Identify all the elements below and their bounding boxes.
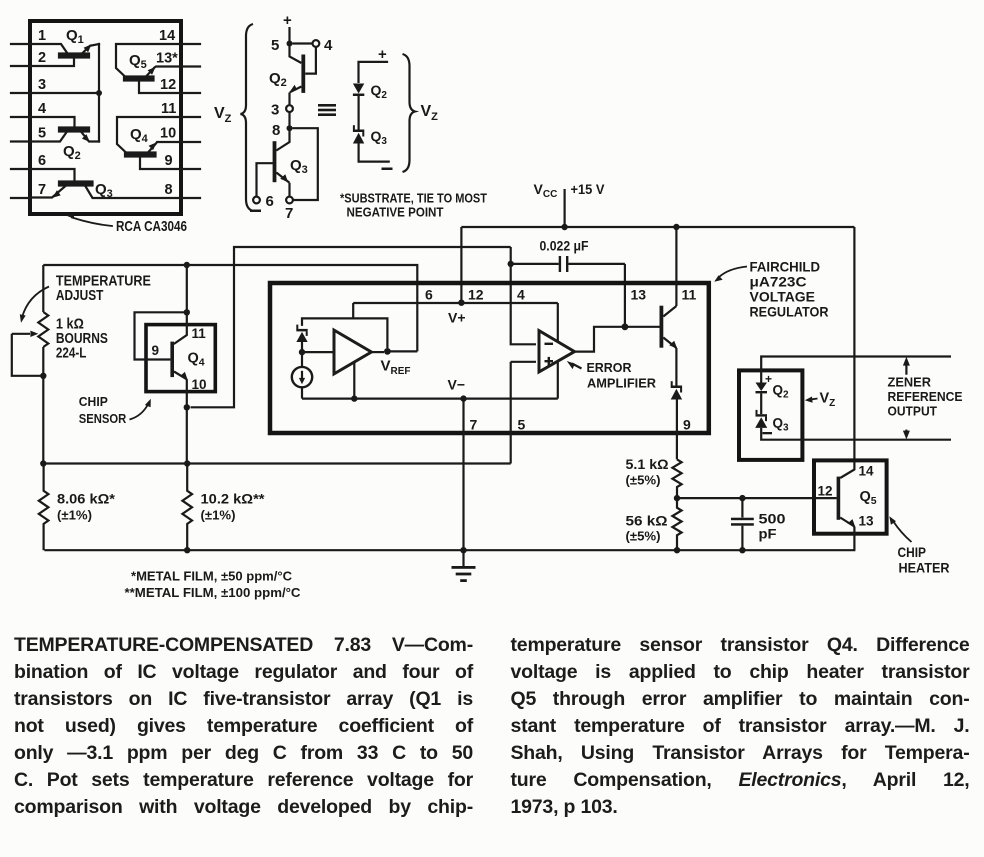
node buffer input junction dot [299, 349, 305, 355]
svg-text:+: + [378, 46, 387, 63]
svg-text:Q2: Q2 [371, 82, 388, 101]
label 1 kOhm BOURNS 224-L [56, 316, 108, 361]
power VCC +15V lead [563, 189, 565, 225]
svg-text:VZ: VZ [820, 391, 836, 410]
label FAIRCHILD uA723C VOLTAGE REGULATOR with arrow [714, 259, 828, 320]
node rail/pin11 junction dot [673, 224, 679, 230]
label 10.2 kOhm (1%) [201, 491, 266, 523]
svg-text:Q4: Q4 [130, 126, 149, 145]
pin labels uA723C bottom [470, 417, 692, 433]
svg-text:Q3: Q3 [773, 416, 790, 434]
caption left column [14, 632, 473, 820]
label Vz with arrow [805, 391, 835, 410]
svg-text:VCC: VCC [534, 181, 558, 200]
wire top of diode stack [359, 62, 389, 83]
svg-text:13: 13 [859, 514, 875, 529]
svg-text:+: + [765, 372, 772, 386]
wire Q4 base loop [135, 312, 187, 359]
diode Q2 (equivalent) [353, 84, 364, 97]
node VREF junction dot [384, 348, 391, 355]
pin labels uA723C top [425, 287, 697, 303]
svg-text:CHIP: CHIP [898, 545, 927, 560]
chip heater box around Q5 [814, 460, 887, 533]
op-amp error amplifier [539, 331, 575, 372]
wire V- internal rail [302, 398, 558, 400]
wire pin 7 to ground [462, 399, 464, 551]
svg-text:7: 7 [285, 205, 293, 222]
diode Q2 (output box) [756, 383, 768, 394]
pin 10 stub [181, 141, 200, 143]
svg-text:Q2: Q2 [269, 70, 287, 89]
svg-text:500: 500 [759, 511, 786, 527]
resistor R3 10.2k [182, 464, 192, 551]
label 500 pF [759, 511, 786, 542]
wire current source to V- rail [301, 387, 303, 398]
svg-text:(±1%): (±1%) [201, 509, 236, 523]
svg-text:6: 6 [38, 153, 46, 169]
zener diode Q3 (equivalent) [353, 125, 364, 143]
svg-text:FAIRCHILD: FAIRCHILD [750, 259, 821, 275]
node ground dots [184, 547, 746, 553]
svg-text:12: 12 [468, 287, 484, 303]
svg-text:0.022 μF: 0.022 μF [540, 239, 589, 254]
svg-text:Q1: Q1 [66, 27, 84, 46]
svg-text:5.1 kΩ: 5.1 kΩ [626, 456, 669, 472]
wire rail down to pin 12 (V+) [460, 227, 462, 303]
svg-text:Q2: Q2 [773, 383, 790, 401]
current source I1 [292, 367, 312, 387]
svg-text:10: 10 [160, 126, 176, 142]
transistor designator labels Q1-Q5 in CA3046 [63, 27, 149, 200]
svg-text:ZENER: ZENER [888, 375, 932, 390]
wire between diodes [358, 96, 360, 130]
pin 4 open terminal [313, 40, 320, 47]
left brace of Vz pair subcircuit [241, 24, 254, 211]
pin labels Q5 box [818, 464, 875, 529]
node V+ / pin12 junction dot [458, 300, 464, 306]
op-amp buffer (voltage reference amplifier) [334, 330, 371, 374]
wire Q5 emitter to ground bus [853, 527, 855, 551]
pin 6 stub [11, 168, 30, 170]
node divider/left dot [40, 460, 46, 466]
node 5.1k/56k junction dot [674, 495, 680, 501]
svg-text:2: 2 [38, 50, 46, 66]
svg-text:56 kΩ: 56 kΩ [626, 513, 668, 529]
svg-text:Q5: Q5 [129, 52, 147, 71]
wire pot bottom to divider line [42, 347, 44, 464]
wire Q4 emitter down to divider [186, 379, 188, 463]
zener reference diode [296, 325, 307, 342]
node pin 5 junction dot [287, 41, 293, 47]
wire Q4 collector column from VREF net [174, 265, 187, 344]
svg-text:6: 6 [425, 287, 433, 303]
node VCC rail tap dot [561, 224, 567, 230]
svg-text:11: 11 [682, 287, 697, 303]
svg-text:SENSOR: SENSOR [79, 411, 127, 426]
svg-text:8: 8 [165, 182, 173, 198]
wire + lead down to pin5 node [288, 27, 290, 41]
wire zener through pin 9 down to 5.1k [676, 400, 678, 460]
pin 7 open terminal [286, 197, 293, 204]
minus terminal mark [382, 168, 393, 171]
svg-text:Q2: Q2 [63, 143, 81, 162]
svg-text:+: + [283, 12, 292, 29]
wire pin3 to pin8 [288, 112, 290, 126]
svg-text:+15 V: +15 V [571, 181, 606, 197]
pin 6 open terminal [253, 197, 260, 204]
svg-text:*METAL FILM, ±50 ppm/°C: *METAL FILM, ±50 ppm/°C [131, 570, 292, 584]
svg-text:(±5%): (±5%) [626, 530, 661, 544]
transistor Q4 chip sensor [170, 342, 187, 380]
svg-text:RCA CA3046: RCA CA3046 [116, 218, 187, 235]
potentiometer R1 1k Bourns 224-L [12, 312, 49, 376]
wire rail right side down to Q5 pin 14 [853, 227, 855, 461]
node pin 8 junction dot [287, 125, 293, 131]
label ERROR AMPLIFIER with arrow [567, 360, 657, 391]
transistor Q2 (Vz subcircuit) [289, 46, 305, 105]
wire reference top rail [302, 318, 387, 348]
svg-text:V−: V− [448, 377, 466, 393]
svg-text:11: 11 [192, 326, 207, 341]
pin 14 stub [181, 43, 200, 45]
svg-text:VZ: VZ [214, 105, 232, 125]
label 5.1 kOhm (5%) [626, 456, 669, 488]
wire input node to buffer amp [302, 351, 334, 353]
wire VCC supply rail [461, 226, 854, 228]
svg-text:Q3: Q3 [371, 128, 388, 147]
svg-text:CHIP: CHIP [79, 394, 108, 409]
wire zener output top line [761, 357, 951, 383]
transistor pass (inside 723) [660, 306, 678, 349]
wire divider top line (pin 5 net) [43, 462, 510, 464]
pin labels Q4 box [152, 326, 207, 392]
wire feedback up to buffer [353, 363, 355, 399]
svg-text:9: 9 [165, 153, 173, 169]
transistor Q2 [30, 117, 99, 142]
pin 5 stub [11, 140, 30, 142]
svg-text:10.2 kΩ**: 10.2 kΩ** [201, 491, 266, 507]
svg-text:3: 3 [271, 102, 279, 119]
svg-text:**METAL FILM, ±100 ppm/°C: **METAL FILM, ±100 ppm/°C [125, 586, 301, 600]
wire pin6 into VREF node [387, 350, 417, 352]
zener diode Q3 (output box) [755, 410, 767, 428]
svg-text:Q5: Q5 [860, 489, 877, 507]
label CHIP SENSOR with arrow [79, 394, 151, 426]
svg-text:VZ: VZ [421, 103, 439, 123]
svg-text:224-L: 224-L [56, 346, 87, 362]
wire pin4 net: cap node to Q4 emitter [191, 247, 511, 407]
svg-text:μA723C: μA723C [750, 274, 807, 290]
wire bottom of diode stack [359, 144, 390, 162]
pin 7 stub [11, 197, 30, 199]
svg-text:ADJUST: ADJUST [56, 288, 104, 304]
node cap top junction dot [739, 495, 745, 501]
label 8.06 kOhm (1%) [57, 491, 116, 523]
node cap left lead junction dot [508, 261, 514, 267]
svg-text:10: 10 [192, 377, 207, 392]
wire pin8 loop right to pin7 [293, 128, 318, 200]
svg-text:HEATER: HEATER [899, 561, 950, 576]
svg-text:8.06 kΩ*: 8.06 kΩ* [57, 491, 116, 507]
wire cap right lead down pin 13 to error amp output [624, 264, 626, 327]
svg-text:13*: 13* [156, 51, 178, 67]
node pin7/V- junction dot [460, 395, 466, 401]
minus terminal mark under pin6 [250, 210, 261, 213]
svg-text:NEGATIVE POINT: NEGATIVE POINT [347, 206, 444, 220]
svg-text:REGULATOR: REGULATOR [750, 304, 829, 320]
wire ground bus [44, 549, 855, 551]
wire pin 4 drop into box to error amp inverting input [511, 247, 536, 344]
wire V+ to V- vertical behind error amp [557, 303, 559, 399]
svg-text:14: 14 [159, 28, 175, 44]
svg-text:(±5%): (±5%) [626, 474, 661, 488]
arrow to RCA CA3046 label [67, 213, 113, 226]
IC U1 RCA CA3046 outline box [30, 21, 181, 214]
chip sensor box around Q4 [146, 325, 215, 392]
svg-text:8: 8 [272, 122, 280, 139]
node output/pin13 junction dot [622, 323, 629, 330]
transistor Q3 [30, 169, 181, 198]
svg-text:12: 12 [818, 484, 833, 499]
wire zener to input node [301, 342, 303, 350]
svg-text:AMPLIFIER: AMPLIFIER [587, 376, 657, 391]
svg-text:OUTPUT: OUTPUT [888, 404, 938, 419]
svg-text:VOLTAGE: VOLTAGE [750, 289, 816, 305]
label TEMPERATURE ADJUST with curved arrow [20, 274, 151, 323]
wire pot top column [42, 265, 44, 312]
svg-text:7: 7 [38, 182, 46, 198]
wire pass emitter down to zener [675, 348, 677, 386]
svg-text:11: 11 [161, 101, 176, 117]
zener diode at pin 9 [671, 381, 682, 399]
pin 8 stub [181, 197, 200, 199]
svg-text:5: 5 [271, 37, 279, 54]
ground symbol [452, 550, 476, 582]
node Q4 base tap junction dot [184, 309, 190, 315]
resistor R5 56k [672, 498, 681, 550]
capacitor C1 0.022uF [513, 256, 625, 272]
svg-text:7: 7 [470, 417, 478, 433]
transistor Q5 [116, 44, 181, 93]
wire pin 5 drop to lower network [510, 362, 512, 464]
node pin3/emitters junction [30, 90, 102, 96]
resistor R4 5.1k [672, 459, 681, 495]
resistor R2 8.06k [39, 464, 49, 551]
wire input node down to current source [301, 352, 303, 367]
pin 1 stub [11, 43, 30, 45]
svg-text:VREF: VREF [381, 358, 411, 378]
svg-text:4: 4 [324, 37, 333, 54]
wire error amp output to pass transistor base [575, 327, 660, 352]
pin 4 stub [11, 116, 30, 118]
wire zener output bottom line [761, 428, 951, 440]
node VREF net / Q4 collector junction dot [184, 262, 190, 268]
svg-text:1 kΩ: 1 kΩ [56, 316, 84, 332]
caption right column [511, 632, 970, 820]
node Q4 emitter / pin4-net junction dot [184, 404, 190, 410]
capacitor C2 500pF [731, 498, 754, 550]
svg-text:*SUBSTRATE, TIE TO MOST: *SUBSTRATE, TIE TO MOST [340, 192, 487, 206]
svg-text:13: 13 [631, 287, 647, 303]
svg-text:Q3: Q3 [290, 157, 308, 176]
svg-text:12: 12 [160, 77, 176, 93]
svg-text:V+: V+ [448, 310, 466, 326]
svg-text:pF: pF [759, 526, 777, 542]
wire pin 11 from rail to pass collector [675, 227, 677, 306]
svg-text:REFERENCE: REFERENCE [888, 389, 963, 404]
transistor Q4 [117, 117, 181, 169]
pin 9 stub [181, 168, 200, 170]
equivalence symbol [318, 104, 336, 116]
svg-text:4: 4 [517, 287, 525, 303]
node buffer feedback junction dot [351, 395, 357, 401]
wire error amp + input from pin 5 [511, 361, 536, 363]
wire between output diodes [760, 393, 762, 414]
svg-text:1: 1 [38, 28, 46, 44]
svg-text:Q4: Q4 [188, 351, 205, 369]
svg-text:5: 5 [518, 417, 526, 433]
svg-text:4: 4 [38, 101, 46, 117]
label 56 kOhm (5%) [626, 513, 668, 544]
IC U2 uA723C regulator outline box [270, 283, 709, 433]
pin 11 stub [181, 116, 200, 118]
wire V+ down to reference rail [352, 303, 354, 318]
zener reference output arrows [903, 357, 910, 440]
wire junction to Q5 base [677, 497, 837, 499]
transistor Q1 [30, 44, 99, 142]
wire pin4 down to Q2 collector [305, 47, 316, 74]
label CHIP HEATER with arrow [889, 516, 949, 575]
transistor Q3 (Vz subcircuit) [257, 131, 290, 197]
wire pin5 to pin4 circle [293, 42, 313, 44]
wire VREF net: pot top to pin 6 [43, 265, 417, 351]
node wiper junction dot [40, 373, 46, 379]
minus mark in zener box [763, 432, 773, 434]
pin 12 stub [181, 92, 200, 94]
node divider/10.2k dot [184, 460, 190, 466]
svg-text:Q3: Q3 [95, 181, 113, 200]
svg-text:ERROR: ERROR [587, 360, 633, 375]
right brace of equivalent stack [403, 54, 416, 172]
pin number labels CA3046 [38, 28, 178, 198]
svg-text:(±1%): (±1%) [57, 509, 92, 523]
svg-text:6: 6 [266, 193, 274, 210]
transistor Q5 chip heater [837, 461, 856, 527]
label ZENER REFERENCE OUTPUT [888, 375, 963, 419]
zener output box Q2/Q3 [739, 370, 802, 460]
svg-text:5: 5 [38, 126, 46, 142]
pin 3 stub [11, 92, 30, 94]
svg-text:9: 9 [683, 417, 691, 433]
svg-text:3: 3 [38, 77, 46, 93]
svg-text:9: 9 [152, 343, 160, 358]
pin 3 open terminal [286, 105, 293, 112]
wire V+ internal rail [353, 302, 558, 304]
svg-text:14: 14 [859, 464, 875, 479]
pin 2 stub [11, 65, 30, 67]
wire buffer output to VREF node [371, 351, 384, 353]
pin 13 stub [181, 65, 200, 67]
